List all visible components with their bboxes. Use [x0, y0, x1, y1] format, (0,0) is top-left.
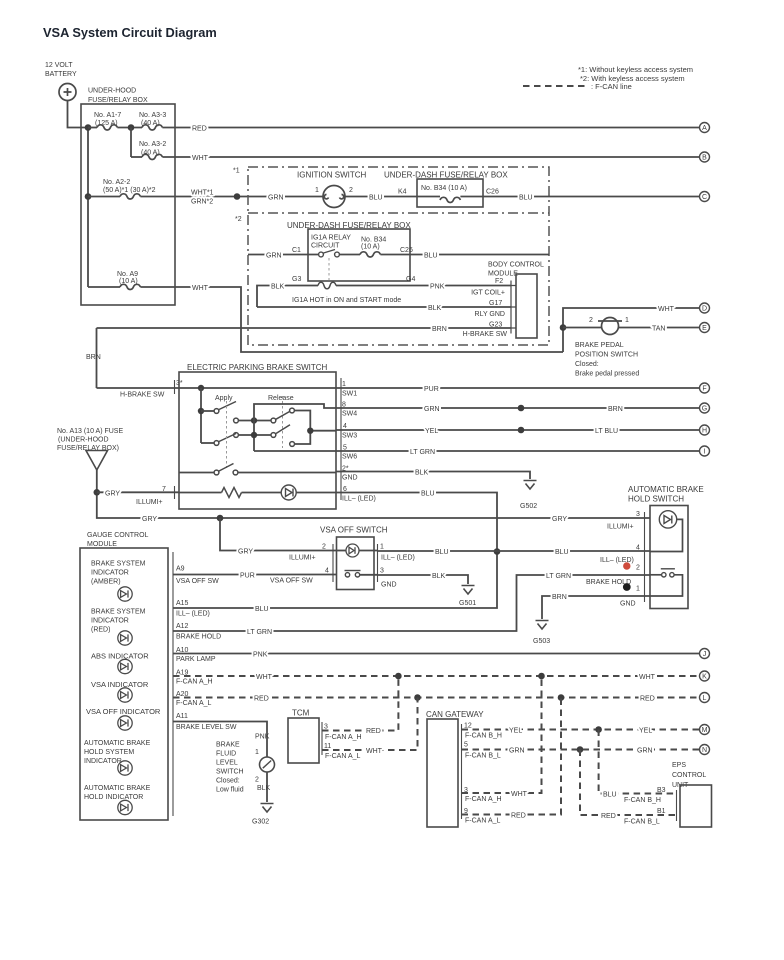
svg-text:ELECTRIC PARKING BRAKE SWITCH: ELECTRIC PARKING BRAKE SWITCH	[187, 363, 328, 372]
svg-text:RLY GND: RLY GND	[475, 311, 505, 318]
svg-text:F-CAN B_H: F-CAN B_H	[624, 797, 661, 804]
svg-text:K: K	[702, 674, 707, 681]
wire GRN to C1	[248, 253, 319, 260]
svg-text:G3: G3	[292, 276, 301, 283]
svg-text:GRY: GRY	[105, 491, 120, 498]
TCM pin bracket	[321, 722, 323, 755]
wire BLU ILL- to brake hold switch	[378, 549, 651, 556]
svg-text:No. A2-2: No. A2-2	[103, 179, 130, 186]
wire BLU ILL- net	[173, 491, 497, 614]
svg-text:IGT COIL+: IGT COIL+	[471, 290, 505, 297]
fuse A3-2	[131, 154, 162, 159]
wire BLU to connector C	[483, 195, 699, 202]
EPS control unit box	[680, 785, 712, 827]
gnd switch row	[179, 464, 336, 475]
electric parking brake switch box	[179, 372, 336, 509]
svg-text:No. A9: No. A9	[117, 271, 138, 278]
black marker dot	[623, 583, 631, 591]
svg-text:LT GRN: LT GRN	[410, 449, 435, 456]
svg-text:12: 12	[464, 723, 472, 730]
wire WHT TCM F-CAN A_L	[322, 698, 418, 761]
svg-text:YEL: YEL	[639, 728, 652, 735]
svg-text:3: 3	[380, 568, 384, 575]
ignition switch SW	[323, 186, 345, 208]
svg-text:BLU: BLU	[603, 792, 617, 799]
svg-text:SW3: SW3	[342, 433, 357, 440]
svg-text:Low fluid: Low fluid	[216, 787, 244, 794]
junction K tcm	[395, 673, 402, 680]
svg-text:1: 1	[380, 544, 384, 551]
wire A3-2 branch	[130, 128, 132, 158]
svg-text:RED: RED	[511, 813, 526, 820]
svg-text:BLU: BLU	[519, 195, 533, 202]
wire BLU ignition to B34	[345, 195, 417, 202]
vsa indicator	[118, 688, 132, 702]
brake hold lamp internal wiring	[650, 519, 683, 551]
apply switch lower	[201, 434, 236, 446]
svg-text:BRAKE HOLD: BRAKE HOLD	[176, 634, 221, 641]
wire RED to connector A	[162, 126, 699, 133]
svg-text:H: H	[702, 428, 707, 435]
svg-text:GND: GND	[342, 475, 358, 482]
svg-text:RED: RED	[640, 696, 655, 703]
junction G splice	[518, 405, 525, 412]
svg-text:I: I	[704, 449, 706, 456]
svg-text:BRAKE: BRAKE	[216, 742, 240, 749]
junction A2-2 tap	[85, 193, 92, 200]
svg-text:E: E	[702, 325, 707, 332]
under-dash dashed divider *1/*2	[248, 212, 549, 214]
brake hold switch bracket	[644, 512, 646, 602]
wire H-BRAKE SW into parking brake switch	[97, 388, 337, 399]
svg-text:INDICATOR: INDICATOR	[91, 570, 129, 577]
svg-text:(50 A)*1 (30 A)*2: (50 A)*1 (30 A)*2	[103, 187, 156, 194]
wire BLK to ground G502	[336, 470, 530, 480]
svg-text:G23: G23	[489, 322, 502, 329]
wire LT GRN brake hold net	[173, 573, 650, 636]
svg-text:A11: A11	[176, 713, 188, 720]
svg-text:VSA System Circuit Diagram: VSA System Circuit Diagram	[43, 25, 217, 40]
connector J	[700, 649, 710, 659]
connector L	[700, 693, 710, 703]
wire LT GRN to connector I	[336, 449, 699, 456]
svg-text:GRY: GRY	[142, 516, 157, 523]
svg-text:LEVEL: LEVEL	[216, 760, 238, 767]
svg-text:11: 11	[324, 743, 331, 750]
wire PNK brake level sw	[173, 722, 270, 758]
under-dash dashed region border	[248, 167, 549, 345]
svg-text:GRN: GRN	[424, 406, 440, 413]
svg-text:ILL– (LED): ILL– (LED)	[342, 496, 376, 503]
svg-text:PNK: PNK	[255, 734, 270, 741]
svg-text:BLU: BLU	[369, 195, 383, 202]
svg-text:2: 2	[636, 565, 640, 572]
SW3 branch	[290, 411, 336, 447]
wire BLK to ground G501	[360, 573, 468, 584]
svg-text:7: 7	[162, 486, 166, 493]
vsa off indicator	[118, 716, 132, 730]
svg-text:G: G	[702, 406, 707, 413]
junction SW1 bus	[198, 385, 204, 391]
wire WHT from A9 down and across to brake pedal switch feed	[140, 285, 563, 352]
svg-text:ILL– (LED): ILL– (LED)	[176, 611, 210, 618]
internal bus vertical	[200, 388, 202, 443]
junction keyless split	[234, 193, 241, 200]
svg-text:RED: RED	[192, 126, 207, 133]
svg-text:GRY: GRY	[238, 549, 253, 556]
junction L tcm	[414, 694, 421, 701]
release row 1	[234, 408, 295, 423]
svg-text:1: 1	[315, 187, 319, 194]
svg-text:No. A13 (10 A) FUSE: No. A13 (10 A) FUSE	[57, 428, 123, 435]
svg-text:GRN: GRN	[266, 253, 282, 260]
svg-text:Apply: Apply	[215, 395, 233, 402]
svg-text:WHT: WHT	[511, 791, 528, 798]
svg-text:A12: A12	[176, 623, 189, 630]
svg-text:RED: RED	[366, 728, 381, 735]
svg-text:AUTOMATIC BRAKE: AUTOMATIC BRAKE	[628, 485, 704, 494]
svg-text:5: 5	[464, 742, 468, 749]
wire WHT CAN F-CAN A_H	[462, 676, 542, 803]
junction apply upper	[198, 408, 204, 414]
svg-text:YEL: YEL	[509, 728, 522, 735]
wire BRN to BCM G23	[97, 326, 512, 333]
svg-text:G17: G17	[489, 300, 502, 307]
svg-text:L: L	[703, 695, 707, 702]
brake pedal position switch	[563, 318, 699, 335]
svg-text:B: B	[702, 155, 707, 162]
svg-text:CAN GATEWAY: CAN GATEWAY	[426, 710, 484, 719]
svg-text:G501: G501	[459, 600, 476, 607]
svg-text:Brake pedal pressed: Brake pedal pressed	[575, 371, 639, 378]
svg-text:*1: *1	[233, 168, 240, 175]
wire RED F-CAN to connector L	[173, 696, 699, 703]
svg-text:PUR: PUR	[424, 386, 439, 393]
fuse A2-2	[88, 194, 140, 199]
connector H	[700, 425, 710, 435]
svg-text:B1: B1	[657, 808, 666, 815]
wire BLK to G3	[257, 284, 318, 308]
brake system indicator red	[118, 631, 132, 645]
legend F-CAN line sample	[523, 82, 632, 91]
svg-text:EPS: EPS	[672, 762, 686, 769]
EPS pin bracket	[676, 790, 678, 821]
svg-text:HOLD SYSTEM: HOLD SYSTEM	[84, 749, 134, 756]
fuse A1-7	[88, 125, 142, 130]
svg-text:F-CAN A_H: F-CAN A_H	[465, 796, 502, 803]
fuse box No.B34 upper	[417, 179, 483, 207]
IG1A relay circuit box	[308, 229, 410, 281]
svg-text:F-CAN B_L: F-CAN B_L	[624, 819, 660, 826]
wire PUR to connector F	[336, 386, 699, 393]
ground G501	[462, 586, 475, 595]
release linkage dashed	[282, 396, 284, 448]
svg-text:F-CAN A_L: F-CAN A_L	[325, 753, 361, 760]
A13 power feed triangle	[86, 451, 108, 471]
svg-text:BLU: BLU	[555, 549, 569, 556]
brake fluid switch label	[216, 742, 244, 794]
svg-text:LT GRN: LT GRN	[546, 573, 571, 580]
battery B1 12 VOLT	[59, 84, 76, 101]
svg-text:VSA INDICATOR: VSA INDICATOR	[91, 680, 149, 689]
svg-text:*2: *2	[235, 216, 242, 223]
svg-text:G502: G502	[520, 503, 537, 510]
svg-text:C1: C1	[292, 247, 301, 254]
junction BLU ILL-	[494, 548, 501, 555]
svg-text:ILL– (LED): ILL– (LED)	[381, 555, 415, 562]
inner bottom wire to SW6	[254, 450, 336, 452]
svg-text:4: 4	[636, 545, 640, 552]
wire BLK to BCM G17	[257, 305, 511, 312]
wire WHT to connector B	[162, 155, 699, 162]
svg-text:H-BRAKE SW: H-BRAKE SW	[120, 392, 165, 399]
wire BRN to ground G503	[542, 594, 650, 619]
svg-text:BRN: BRN	[552, 594, 567, 601]
release row 2	[234, 425, 290, 438]
svg-text:No. B34 (10 A): No. B34 (10 A)	[421, 185, 467, 192]
auto brake hold system indicator	[118, 761, 132, 775]
svg-text:No. A1-7: No. A1-7	[94, 112, 121, 119]
relay coil IG1A	[318, 282, 336, 289]
svg-text:4: 4	[343, 423, 347, 430]
wire GRY to VSA OFF switch ILLUMI+	[220, 518, 337, 556]
VSA OFF contact	[345, 571, 361, 578]
svg-text:FUSE/RELAY BOX: FUSE/RELAY BOX	[88, 97, 148, 104]
wire RED F-CAN B_L to EPS	[580, 750, 677, 826]
svg-text:HOLD INDICATOR: HOLD INDICATOR	[84, 794, 143, 801]
svg-text:RED: RED	[254, 696, 269, 703]
svg-text:BRN: BRN	[608, 406, 623, 413]
auto brake hold indicator label	[84, 785, 151, 801]
wire GRY to parking brake ILLUMI+	[97, 491, 179, 498]
svg-text:PUR: PUR	[240, 573, 255, 580]
VSA OFF switch brackets	[333, 544, 378, 582]
red marker dot	[623, 562, 630, 569]
apply linkage dashed	[226, 396, 228, 468]
svg-text:M: M	[702, 727, 708, 734]
svg-text:2: 2	[255, 777, 259, 784]
svg-text:PNK: PNK	[430, 284, 445, 291]
svg-text:GRN*2: GRN*2	[191, 199, 213, 206]
svg-text:F-CAN A_H: F-CAN A_H	[176, 679, 213, 686]
pin tab 7	[174, 486, 176, 499]
svg-text:C26: C26	[400, 247, 413, 254]
svg-text:1: 1	[636, 586, 640, 593]
gauge module pin bracket	[172, 552, 174, 816]
svg-text:: F-CAN line: : F-CAN line	[591, 82, 632, 91]
svg-text:BLU: BLU	[421, 491, 435, 498]
svg-text:F-CAN A_L: F-CAN A_L	[465, 818, 501, 825]
apply switch upper	[201, 402, 236, 414]
svg-text:BRN: BRN	[86, 354, 101, 361]
svg-text:SW1: SW1	[342, 391, 357, 398]
wire GRN/BRN to connector G	[336, 406, 699, 413]
svg-text:H-BRAKE SW: H-BRAKE SW	[463, 331, 508, 338]
wire WHT/GRN ignition feed	[140, 190, 323, 206]
svg-text:VSA OFF SW: VSA OFF SW	[176, 578, 219, 585]
relay linkage dashed	[328, 258, 330, 281]
CAN gateway box	[427, 719, 458, 827]
wire RED CAN F-CAN A_L	[462, 698, 562, 825]
svg-text:WHT: WHT	[658, 306, 675, 313]
auto brake hold indicator	[118, 800, 132, 814]
svg-text:A: A	[702, 125, 707, 132]
wire WHT to connector D	[563, 306, 699, 352]
junction N eps	[577, 746, 584, 753]
svg-text:ABS INDICATOR: ABS INDICATOR	[91, 652, 149, 661]
connector K	[700, 671, 710, 681]
svg-text:WHT: WHT	[639, 674, 656, 681]
svg-text:BRAKE PEDAL: BRAKE PEDAL	[575, 342, 624, 349]
brake hold contact	[650, 569, 683, 596]
svg-text:BLK: BLK	[271, 284, 285, 291]
svg-text:BLU: BLU	[424, 253, 438, 260]
svg-text:BRN: BRN	[432, 326, 447, 333]
svg-text:Closed:: Closed:	[216, 778, 240, 785]
svg-text:A9: A9	[176, 566, 185, 573]
svg-text:Closed:: Closed:	[575, 361, 599, 368]
svg-text:LT GRN: LT GRN	[247, 629, 272, 636]
svg-text:INDICATOR: INDICATOR	[84, 758, 122, 765]
brake system indicator amber	[118, 587, 132, 601]
svg-text:GRN: GRN	[268, 195, 284, 202]
release inner top wire to SW4	[254, 404, 336, 451]
fuse A9	[88, 284, 140, 289]
svg-text:WHT: WHT	[256, 674, 273, 681]
svg-text:UNDER-HOOD: UNDER-HOOD	[88, 88, 136, 95]
svg-text:VSA OFF SWITCH: VSA OFF SWITCH	[320, 526, 388, 535]
svg-text:BLK: BLK	[257, 785, 271, 792]
TCM box	[288, 718, 319, 763]
svg-text:A15: A15	[176, 600, 189, 607]
fuse B34 upper	[417, 197, 483, 203]
svg-text:MODULE: MODULE	[488, 271, 518, 278]
svg-text:D: D	[702, 306, 707, 313]
junction ILLUMI+ tap	[94, 489, 101, 496]
brake system indicator amber label	[91, 561, 146, 586]
svg-text:1: 1	[625, 317, 629, 324]
illumination row resistor	[179, 488, 242, 498]
brake fluid level switch	[260, 757, 275, 772]
svg-text:F-CAN B_L: F-CAN B_L	[465, 753, 501, 760]
junction battery feed	[85, 124, 92, 131]
svg-text:BLK: BLK	[415, 470, 429, 477]
svg-text:CONTROL: CONTROL	[672, 772, 706, 779]
svg-text:F-CAN A_L: F-CAN A_L	[176, 700, 212, 707]
svg-text:2: 2	[322, 544, 326, 551]
junction GRY VSA tap	[217, 515, 224, 522]
svg-text:BLK: BLK	[432, 573, 446, 580]
svg-text:LT BLU: LT BLU	[595, 428, 618, 435]
svg-text:BRAKE LEVEL SW: BRAKE LEVEL SW	[176, 724, 237, 731]
svg-text:12 VOLT: 12 VOLT	[45, 62, 73, 69]
svg-text:BLU: BLU	[255, 606, 269, 613]
ground G502	[524, 481, 537, 490]
svg-text:BLK: BLK	[428, 305, 442, 312]
svg-text:(RED): (RED)	[91, 627, 110, 634]
svg-text:3: 3	[636, 511, 640, 518]
connector C	[700, 192, 710, 202]
svg-text:GND: GND	[381, 582, 397, 589]
svg-text:ILLUMI+: ILLUMI+	[607, 524, 634, 531]
svg-text:GRN: GRN	[509, 748, 525, 755]
svg-text:RED: RED	[601, 813, 616, 820]
junction H splice	[518, 427, 525, 434]
auto brake hold system indicator label	[84, 740, 151, 765]
svg-text:C26: C26	[486, 189, 499, 196]
svg-text:GND: GND	[620, 601, 636, 608]
svg-text:SWITCH: SWITCH	[216, 769, 244, 776]
relay contact IG1A	[319, 250, 340, 257]
connector D	[700, 303, 710, 313]
svg-text:YEL: YEL	[425, 428, 438, 435]
connector I	[700, 446, 710, 456]
wire GRY feed vertical	[97, 470, 650, 518]
EPS control unit label	[672, 762, 706, 789]
connector M	[700, 725, 710, 735]
svg-text:HOLD SWITCH: HOLD SWITCH	[628, 495, 684, 504]
junction L can gateway	[558, 694, 565, 701]
connector A	[700, 123, 710, 133]
svg-text:WHT: WHT	[192, 285, 209, 292]
wire YEL/LT BLU to connector H	[336, 428, 699, 435]
fuse B34 lower	[339, 252, 410, 257]
junction K can gateway	[538, 673, 545, 680]
svg-text:J: J	[703, 651, 707, 658]
svg-text:AUTOMATIC BRAKE: AUTOMATIC BRAKE	[84, 785, 151, 792]
svg-text:INDICATOR: INDICATOR	[91, 618, 129, 625]
svg-text:TCM: TCM	[292, 709, 310, 718]
svg-text:AUTOMATIC BRAKE: AUTOMATIC BRAKE	[84, 740, 151, 747]
wire PNK to BCM F2	[336, 284, 511, 291]
svg-text:C: C	[702, 194, 707, 201]
illumination LED lamp	[242, 485, 337, 500]
svg-text:MODULE: MODULE	[87, 541, 117, 548]
svg-text:G503: G503	[533, 638, 550, 645]
svg-text:POSITION SWITCH: POSITION SWITCH	[575, 352, 638, 359]
connector B	[700, 152, 710, 162]
svg-text:F: F	[702, 386, 706, 393]
connector G	[700, 403, 710, 413]
svg-text:No. A3-3: No. A3-3	[139, 112, 166, 119]
brake hold lamp	[659, 511, 676, 528]
svg-text:(AMBER): (AMBER)	[91, 579, 121, 586]
svg-text:No. A3-2: No. A3-2	[139, 141, 166, 148]
wire BLK to ground G302	[257, 772, 271, 802]
svg-text:F-CAN B_H: F-CAN B_H	[465, 733, 502, 740]
wire RED TCM F-CAN A_H	[322, 676, 398, 741]
svg-text:IGNITION SWITCH: IGNITION SWITCH	[297, 171, 367, 180]
wire WHT F-CAN to connector K	[173, 674, 699, 681]
svg-text:2: 2	[349, 187, 353, 194]
svg-text:Release: Release	[268, 395, 294, 402]
junction row1	[251, 417, 257, 423]
wire BLU from C26 lower	[410, 253, 549, 260]
svg-text:PNK: PNK	[253, 652, 268, 659]
svg-text:2: 2	[589, 317, 593, 324]
connector F	[700, 383, 710, 393]
svg-text:IG1A RELAY: IG1A RELAY	[311, 235, 351, 242]
svg-text:(10 A): (10 A)	[361, 244, 380, 251]
svg-text:1: 1	[255, 749, 259, 756]
svg-text:F2: F2	[495, 278, 503, 285]
ground G503	[536, 621, 549, 630]
svg-text:1: 1	[342, 381, 346, 388]
body control module box	[516, 274, 537, 338]
svg-text:VSA OFF INDICATOR: VSA OFF INDICATOR	[86, 707, 161, 716]
VSA OFF lamp	[337, 544, 378, 557]
svg-text:4: 4	[325, 568, 329, 575]
